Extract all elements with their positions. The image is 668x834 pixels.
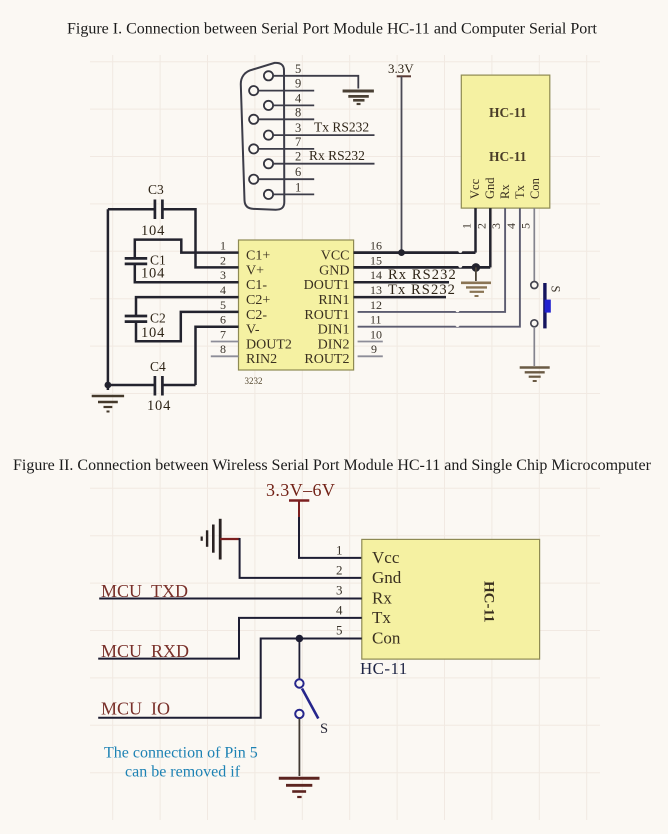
svg-text:104: 104	[141, 325, 165, 341]
wire J1 pin3 Tx RS232	[273, 134, 374, 136]
svg-text:can be removed if: can be removed if	[125, 764, 241, 781]
svg-text:S: S	[549, 286, 563, 293]
ground G6 bottom	[279, 778, 320, 797]
svg-text:5: 5	[336, 623, 343, 638]
svg-text:5: 5	[295, 62, 301, 76]
svg-text:Figure II. Connection between: Figure II. Connection between Wireless S…	[13, 457, 652, 474]
svg-text:Tx: Tx	[513, 184, 527, 199]
J1 pin 2 circle	[264, 159, 273, 168]
wire G5 to pin2	[240, 538, 362, 578]
svg-text:GND: GND	[319, 263, 349, 278]
svg-text:3: 3	[295, 121, 301, 135]
svg-text:Tx: Tx	[372, 608, 391, 627]
module U3 HC-11 box (figure II)	[362, 539, 540, 659]
svg-text:VCC: VCC	[321, 249, 350, 264]
capacitor C2	[125, 316, 148, 322]
ground G3 middle	[461, 283, 491, 296]
U2 pin 3 stub	[358, 208, 506, 312]
svg-text:11: 11	[370, 313, 382, 327]
U2 pin 2 stub	[489, 208, 492, 267]
wire switch to ground	[298, 718, 300, 776]
svg-text:3.3V: 3.3V	[388, 61, 414, 76]
svg-text:The connection of Pin 5: The connection of Pin 5	[104, 745, 258, 762]
svg-text:HC-11: HC-11	[489, 149, 527, 164]
wire GND drop	[475, 267, 477, 281]
svg-text:DOUT1: DOUT1	[304, 278, 350, 293]
wire U1 pin15 GND to HC-11 pin2	[354, 266, 491, 269]
wire U1 pin4 C2 top	[136, 297, 239, 315]
svg-text:MCU RXD: MCU RXD	[101, 641, 189, 661]
wire 3.3V drop navy to pin1	[299, 517, 362, 558]
svg-text:6: 6	[220, 313, 226, 327]
svg-text:5: 5	[519, 223, 533, 229]
wire U1 pin1 C1 top loop	[135, 240, 239, 258]
svg-text:C1+: C1+	[246, 249, 270, 264]
wire 3.3V drop red	[298, 501, 300, 520]
svg-text:Rx RS232: Rx RS232	[388, 267, 457, 283]
svg-text:6: 6	[295, 165, 301, 179]
svg-text:14: 14	[370, 268, 382, 282]
ground G5 rotated	[202, 519, 221, 560]
wire 3.3V vertical	[401, 76, 403, 252]
svg-text:16: 16	[370, 239, 382, 253]
wire U1 pin13 Tx RS232	[354, 296, 446, 299]
svg-text:3: 3	[336, 583, 343, 598]
U1 left pin numbers	[220, 239, 226, 357]
connector J1 DB9 outline	[241, 63, 285, 210]
U2 pin 4 stub	[358, 208, 520, 327]
wire J1 pin2 Rx RS232	[273, 163, 374, 165]
wire U1 pin5 C2 bottom loop	[136, 312, 239, 341]
svg-text:2: 2	[474, 223, 488, 229]
svg-text:C3: C3	[148, 182, 164, 197]
J1 pin 3 circle	[264, 131, 273, 140]
svg-text:5: 5	[220, 298, 226, 312]
wire U1 pin6 C4 right	[196, 327, 239, 385]
J1 pin number labels	[295, 62, 302, 195]
svg-text:15: 15	[370, 253, 382, 267]
svg-text:MCU IO: MCU IO	[101, 699, 170, 719]
wire MCU IO up to pin5	[98, 639, 299, 718]
wire J1 pin4	[273, 104, 314, 106]
svg-text:HC-11: HC-11	[481, 581, 497, 623]
svg-text:RIN1: RIN1	[318, 293, 349, 308]
module U2 HC-11 box (figure I)	[461, 75, 550, 208]
svg-text:3: 3	[489, 223, 503, 229]
svg-text:1: 1	[336, 543, 343, 558]
svg-text:1: 1	[220, 239, 226, 253]
svg-text:10: 10	[370, 327, 382, 341]
wire C4 left lead	[108, 384, 155, 387]
wire C3 right down to U1 pin2	[162, 209, 238, 267]
svg-text:Gnd: Gnd	[483, 177, 497, 199]
svg-text:MCU TXD: MCU TXD	[101, 581, 188, 601]
U1 pin7 stub	[211, 341, 239, 343]
ground G4 below switch	[520, 368, 550, 382]
U2 pin numbers rotated	[460, 223, 533, 229]
wire J1 pin9	[258, 90, 314, 92]
IC U1 3232 box	[239, 240, 354, 370]
svg-text:4: 4	[295, 91, 302, 105]
U2 pin 1 stub	[474, 208, 477, 253]
svg-text:104: 104	[147, 398, 171, 414]
svg-text:Rx: Rx	[498, 184, 512, 199]
svg-text:Rx: Rx	[372, 588, 392, 607]
svg-text:3: 3	[220, 268, 226, 282]
wire dot to switch	[298, 639, 300, 680]
svg-text:7: 7	[295, 135, 301, 149]
wire C3 left to vertical	[108, 208, 155, 211]
J1 pin 6 circle	[249, 175, 258, 184]
svg-text:Figure I. Connection between S: Figure I. Connection between Serial Port…	[67, 21, 598, 38]
svg-text:S: S	[320, 721, 328, 737]
svg-text:4: 4	[336, 603, 343, 618]
svg-text:RIN2: RIN2	[246, 352, 277, 367]
svg-text:V+: V+	[246, 263, 264, 278]
junction dot pin5	[296, 635, 304, 643]
svg-text:Vcc: Vcc	[468, 178, 482, 199]
svg-text:C2-: C2-	[246, 308, 267, 323]
wire J1 pin7	[258, 148, 314, 150]
svg-text:HC-11: HC-11	[360, 659, 408, 678]
svg-text:C4: C4	[150, 359, 166, 374]
svg-text:8: 8	[295, 105, 301, 119]
J1 pin 7 circle	[249, 144, 258, 153]
svg-text:Vcc: Vcc	[372, 548, 400, 567]
J1 pin 4 circle	[264, 101, 273, 110]
J1 pin 9 circle	[249, 86, 258, 95]
svg-text:12: 12	[370, 298, 382, 312]
wire pin5	[299, 638, 361, 640]
J1 pin 5 circle	[264, 71, 273, 80]
wire pin4 to MCU RXD	[98, 618, 362, 659]
svg-text:Gnd: Gnd	[372, 568, 402, 587]
U1 right pin numbers	[370, 239, 382, 357]
wire J1 pin5 to ground	[273, 76, 358, 89]
svg-text:DIN1: DIN1	[318, 323, 350, 338]
switch S2 top contact	[295, 679, 303, 687]
svg-text:C2+: C2+	[246, 293, 270, 308]
ground G2 bottom left	[92, 396, 124, 412]
capacitor C1	[125, 258, 148, 264]
svg-text:ROUT1: ROUT1	[304, 308, 349, 323]
U1 pin9 stub	[358, 355, 383, 357]
svg-text:C2: C2	[150, 311, 166, 326]
svg-text:Rx RS232: Rx RS232	[309, 148, 365, 163]
svg-text:3.3V–6V: 3.3V–6V	[266, 480, 335, 500]
svg-text:Con: Con	[528, 177, 542, 199]
svg-text:2: 2	[295, 150, 301, 164]
wire J1 pin6	[258, 178, 314, 180]
svg-text:Tx RS232: Tx RS232	[388, 282, 456, 298]
wire left vertical C3 to ground	[107, 209, 110, 390]
wire C4 right lead	[162, 384, 195, 387]
J1 pin 8 circle	[249, 115, 258, 124]
junction dot 3.3V/VCC	[398, 249, 405, 256]
junction dot GND	[472, 263, 481, 272]
wire MCU TXD to pin3	[99, 598, 362, 600]
svg-text:V-: V-	[246, 323, 260, 338]
junction dot at C4 left	[105, 382, 112, 389]
svg-text:ROUT2: ROUT2	[304, 352, 349, 367]
svg-text:104: 104	[141, 223, 165, 239]
svg-text:Con: Con	[372, 629, 401, 648]
wire U1 pin3 C1 bottom	[135, 265, 239, 282]
wire G5 lead red	[220, 538, 239, 540]
svg-text:1: 1	[460, 223, 474, 229]
svg-text:13: 13	[370, 283, 382, 297]
wire J1 pin1	[273, 193, 314, 195]
U1 left pin names	[246, 249, 292, 368]
switch S2 bottom contact	[295, 710, 303, 718]
wire U1 pin14 Rx RS232	[354, 281, 449, 284]
svg-text:8: 8	[220, 342, 226, 356]
wire U1 pin16 VCC to HC-11 pin1	[354, 251, 476, 254]
svg-text:9: 9	[295, 77, 301, 91]
U2 pin 5 stub	[533, 208, 535, 281]
svg-text:2: 2	[336, 563, 343, 578]
svg-text:2: 2	[220, 253, 226, 267]
svg-text:104: 104	[141, 266, 165, 282]
wire switch to ground	[533, 327, 535, 366]
svg-text:C1-: C1-	[246, 278, 267, 293]
svg-text:1: 1	[295, 180, 301, 194]
U1 pin10 stub	[358, 341, 383, 343]
switch S figure I	[531, 282, 538, 289]
U1 pin8 stub	[211, 355, 239, 357]
U3 pin numbers	[336, 543, 343, 638]
svg-text:4: 4	[220, 283, 226, 297]
svg-text:4: 4	[504, 223, 518, 229]
svg-text:7: 7	[220, 327, 226, 341]
svg-text:HC-11: HC-11	[489, 105, 527, 120]
svg-text:3232: 3232	[245, 376, 263, 386]
svg-text:DIN2: DIN2	[318, 337, 350, 352]
hop notches	[456, 249, 463, 327]
svg-text:Tx RS232: Tx RS232	[314, 120, 369, 135]
svg-text:9: 9	[371, 342, 377, 356]
switch S2 blade	[302, 689, 318, 719]
U1 right pin names	[304, 249, 350, 368]
svg-text:DOUT2: DOUT2	[246, 337, 292, 352]
wire J1 pin8	[258, 118, 314, 120]
J1 pin 1 circle	[264, 190, 273, 199]
ground G1 near DB9	[343, 91, 374, 104]
